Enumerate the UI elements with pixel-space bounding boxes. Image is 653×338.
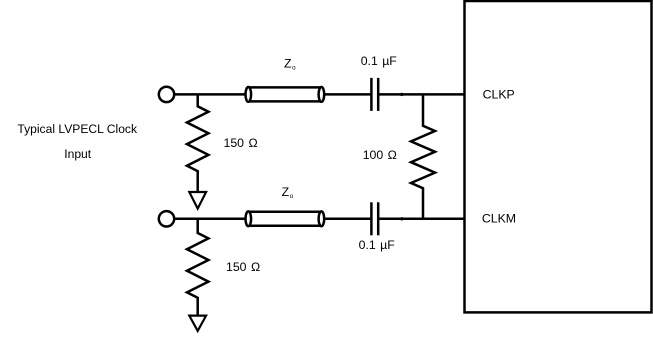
svg-text:o: o: [290, 193, 294, 200]
svg-text:Z: Z: [282, 185, 290, 199]
junction dot bottom rail: [400, 217, 403, 220]
capacitor C2 0.1uF (bottom): [371, 202, 378, 235]
svg-text:o: o: [292, 65, 296, 72]
resistor R1 150 ohm (top): [187, 94, 209, 191]
transmission line Z2 (bottom): [246, 211, 325, 226]
wire bottom: circle to transmission line: [174, 218, 246, 221]
ground arrow (top R1): [189, 192, 206, 209]
svg-text:Input: Input: [64, 147, 92, 161]
input terminal circle J2 (bottom): [159, 211, 174, 226]
svg-text:0.1 µF: 0.1 µF: [359, 238, 396, 252]
svg-text:100 Ω: 100 Ω: [363, 148, 397, 162]
svg-text:Typical LVPECL Clock: Typical LVPECL Clock: [17, 122, 138, 136]
junction dot top rail: [400, 93, 403, 96]
label Zo (bottom): [282, 185, 294, 200]
svg-text:CLKM: CLKM: [482, 212, 516, 226]
svg-text:CLKP: CLKP: [483, 88, 515, 102]
svg-text:150 Ω: 150 Ω: [226, 260, 260, 274]
device U1 box: [465, 1, 652, 312]
svg-text:0.1 µF: 0.1 µF: [361, 54, 398, 68]
svg-text:150 Ω: 150 Ω: [224, 136, 258, 150]
svg-text:Z: Z: [284, 57, 292, 71]
wire top: circle to transmission line: [174, 93, 246, 96]
resistor R3 100 ohm (middle): [411, 94, 435, 218]
wire bottom: transmission line to capacitor: [324, 218, 371, 221]
label Zo (top): [284, 57, 296, 72]
ground arrow (bottom R2): [189, 316, 206, 331]
wire top: capacitor to device CLKP pin: [379, 93, 465, 96]
transmission line Z1 (top): [246, 87, 325, 102]
capacitor C1 0.1uF (top): [371, 78, 378, 111]
wire bottom: capacitor to device CLKM pin: [379, 218, 465, 221]
input terminal circle J1 (top): [159, 87, 174, 102]
resistor R2 150 ohm (bottom): [187, 219, 209, 315]
wire top: transmission line to capacitor: [324, 93, 371, 96]
